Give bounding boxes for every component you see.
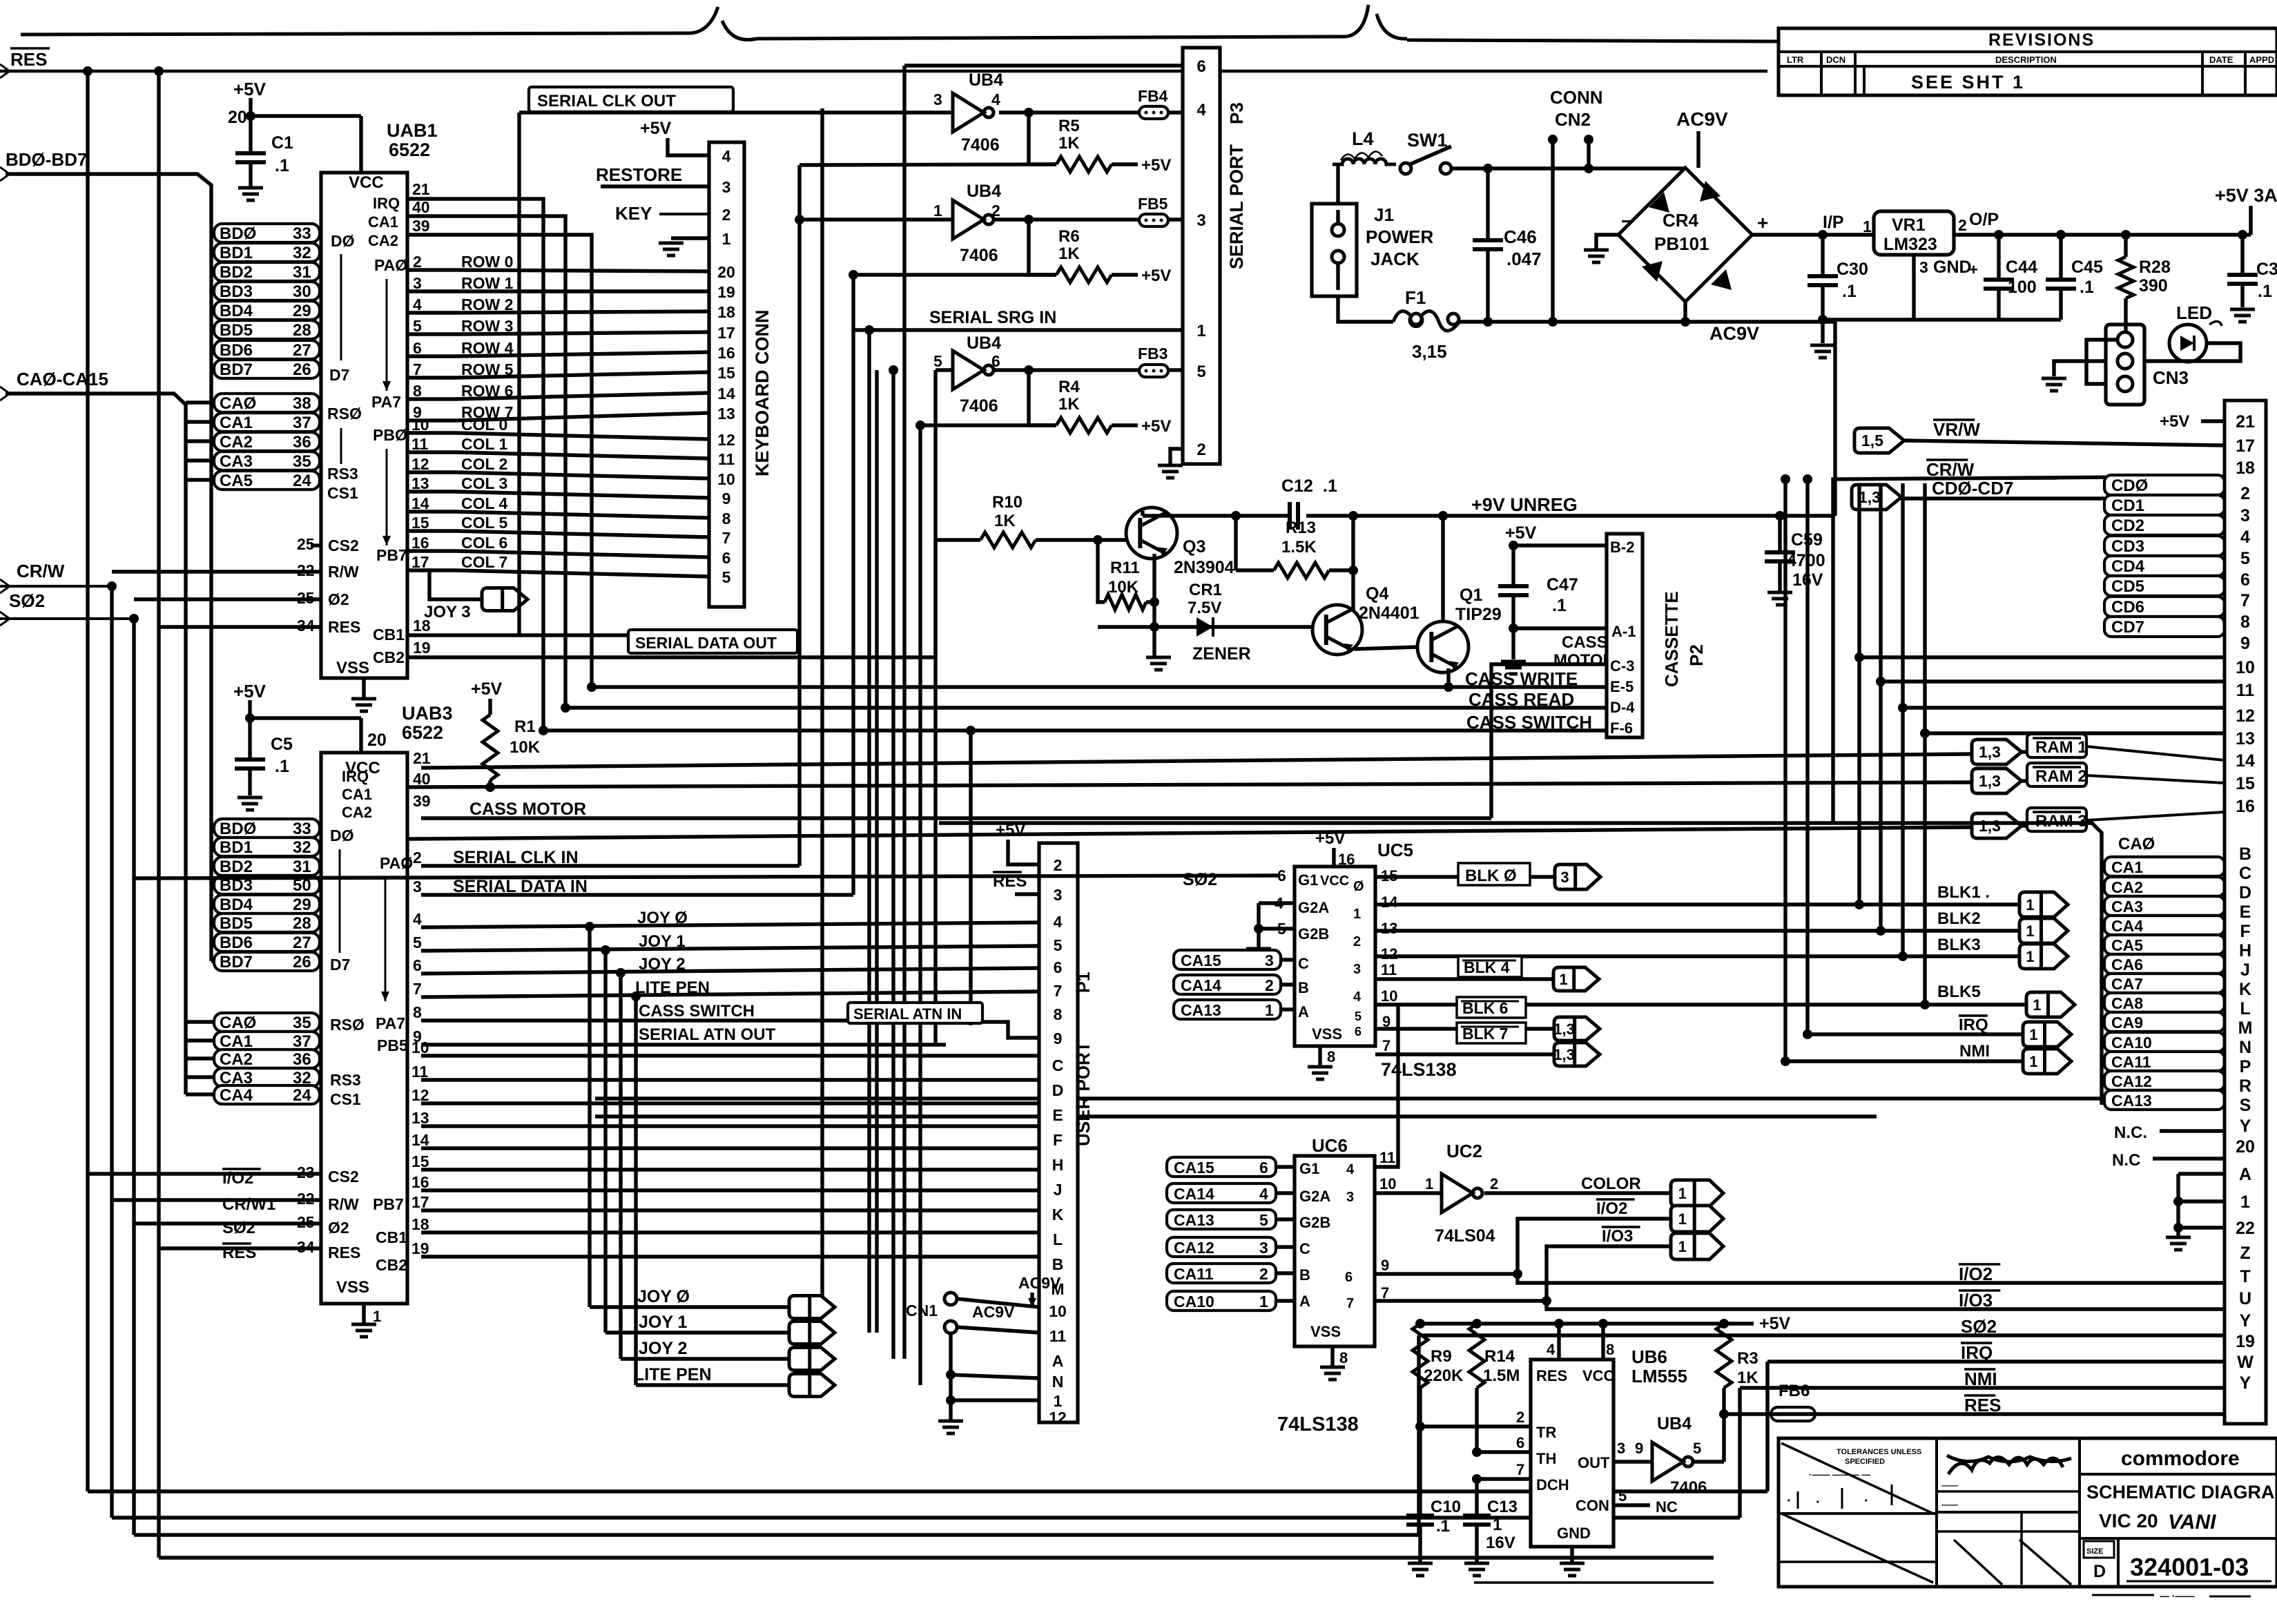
node CA11 stack (2104, 1052, 2225, 1071)
table REVISIONS verticals (1820, 52, 1823, 95)
wire UAB1 CA0 stub (186, 400, 214, 404)
wire CN1 n (951, 1375, 1039, 1378)
svg-text:AC9V: AC9V (1676, 108, 1728, 130)
svg-text:6: 6 (991, 352, 1000, 370)
svg-text:19: 19 (411, 1239, 429, 1257)
svg-text:ROW 6: ROW 6 (461, 382, 513, 400)
svg-text:CASSETTE: CASSETTE (1661, 591, 1682, 687)
svg-text:BDØ-BD7: BDØ-BD7 (6, 149, 87, 170)
svg-text:BD5: BD5 (220, 321, 253, 340)
svg-text:12: 12 (411, 1086, 429, 1104)
wire joy1 vert (603, 950, 607, 1333)
svg-text:+5V: +5V (1141, 267, 1171, 285)
chip UAB1 box (321, 173, 407, 678)
wire R5 branch (1029, 113, 1056, 164)
connector keyboard box (709, 142, 744, 607)
svg-text:15: 15 (411, 514, 429, 532)
wire UC6 out10 (1375, 1191, 1442, 1195)
svg-text:22: 22 (297, 1190, 315, 1208)
node BD3 row (214, 282, 320, 300)
wire mid vert 1270 (875, 370, 878, 1333)
ground C10 (1408, 1562, 1433, 1565)
svg-text:3: 3 (1617, 1440, 1625, 1457)
svg-text:PB7: PB7 (373, 1195, 404, 1213)
svg-text:CASS MOTOR: CASS MOTOR (469, 800, 586, 819)
svg-text:VANI: VANI (2168, 1511, 2216, 1534)
svg-text:14: 14 (1381, 893, 1398, 911)
wire COL 6 (407, 551, 709, 557)
connector COLOR tag (1671, 1180, 1723, 1206)
svg-text:18: 18 (2236, 458, 2255, 478)
svg-text:22: 22 (2236, 1219, 2255, 1238)
chip UC5 box (1295, 867, 1375, 1046)
svg-text:I/O3: I/O3 (1602, 1227, 1633, 1246)
wire UAB1 02 (134, 597, 321, 601)
svg-text:C: C (1052, 1056, 1064, 1074)
svg-text:2: 2 (1353, 934, 1361, 949)
wire UAB3 CA1 stub (186, 1038, 214, 1042)
svg-text:3: 3 (2240, 506, 2250, 525)
svg-text:G1: G1 (1298, 871, 1318, 889)
svg-text:F: F (2240, 922, 2250, 941)
svg-text:ROW 4: ROW 4 (461, 339, 514, 357)
wire IO2 tag row (1518, 1219, 1671, 1274)
wire UAB3 BD0 stub (211, 826, 214, 829)
ground Q3 (1146, 656, 1171, 659)
svg-text:21: 21 (412, 180, 430, 198)
svg-text:TR: TR (1536, 1424, 1556, 1441)
node SERIAL ATN IN (848, 1003, 982, 1023)
svg-text:2: 2 (2240, 484, 2250, 503)
svg-text:JOY 3: JOY 3 (424, 603, 471, 621)
svg-text:CA12: CA12 (1174, 1239, 1214, 1257)
svg-text:D: D (2093, 1562, 2106, 1581)
svg-text:74LS138: 74LS138 (1277, 1413, 1359, 1435)
wire CN3 low (2086, 340, 2118, 384)
svg-text:NC: NC (1656, 1498, 1678, 1516)
wire COL 2 (407, 472, 709, 478)
node UAB3 BD0 row (214, 819, 320, 838)
svg-text:·: · (1787, 1493, 1792, 1509)
node UAB3 CA4 row (214, 1085, 320, 1104)
node CA3 stack (2104, 896, 2225, 916)
wire UAB1 pin 21 (407, 199, 543, 731)
wire S02 vertical (132, 619, 135, 1535)
wire BLK2 (1375, 929, 2019, 932)
svg-text:F-6: F-6 (1610, 719, 1633, 737)
wire UAB1 PB arrow (386, 449, 388, 545)
svg-text:RS3: RS3 (327, 465, 358, 483)
wire TH (1477, 1450, 1531, 1453)
wire top border right (1407, 40, 1779, 41)
wire R6 branch (1029, 220, 1056, 275)
svg-text:L: L (1053, 1230, 1063, 1248)
svg-text:3: 3 (1265, 951, 1274, 969)
svg-text:1: 1 (2240, 1192, 2250, 1212)
node UAB1 CA0 row (214, 394, 320, 412)
svg-text:C30: C30 (1837, 260, 1868, 279)
svg-text:PAØ: PAØ (380, 854, 413, 872)
svg-text:BD3: BD3 (220, 282, 253, 301)
wire sdo vert (933, 370, 937, 1045)
svg-text:BD2: BD2 (220, 263, 253, 282)
svg-text:FB5: FB5 (1138, 195, 1168, 213)
capacitor C13 (1475, 1479, 1478, 1516)
table title left diag (1781, 1443, 1933, 1514)
wire UAB1 RW (112, 570, 321, 573)
svg-text:4: 4 (2240, 528, 2250, 547)
svg-text:16: 16 (2236, 797, 2255, 816)
svg-text:2: 2 (413, 253, 422, 271)
svg-text:VSS: VSS (336, 659, 369, 677)
svg-text:C44: C44 (2006, 258, 2037, 277)
svg-text:8: 8 (2240, 612, 2250, 632)
ground keyboard (659, 242, 684, 245)
svg-text:R6: R6 (1058, 227, 1080, 246)
svg-text:SPECIFIED: SPECIFIED (1845, 1458, 1885, 1466)
wire Q1 emitter (1446, 668, 1450, 687)
wire UAB3 row10 (421, 1054, 1039, 1057)
svg-text:AC9V: AC9V (1018, 1274, 1061, 1292)
svg-text:10: 10 (717, 470, 735, 488)
svg-text:COL 4: COL 4 (461, 494, 508, 512)
wire litepen (421, 992, 1039, 997)
wire ROW 1 (407, 289, 709, 293)
wire long 1591 (595, 1096, 2102, 1100)
svg-text:CA1: CA1 (220, 414, 253, 432)
svg-text:16: 16 (411, 1173, 429, 1191)
wire UB4 out (1692, 1460, 1724, 1463)
wire BLK1 (1375, 902, 2019, 906)
svg-text:34: 34 (297, 1238, 315, 1256)
wire BD7 stub (211, 367, 214, 370)
node CD3 box (2104, 536, 2225, 556)
svg-text:LTR: LTR (1787, 55, 1804, 65)
svg-text:CB1: CB1 (373, 626, 405, 644)
svg-text:2: 2 (1490, 1175, 1498, 1192)
wire led loop (2144, 343, 2240, 361)
svg-text:JOY 1: JOY 1 (639, 1313, 688, 1332)
svg-text:5: 5 (1054, 936, 1063, 954)
svg-text:CASS: CASS (1562, 633, 1608, 652)
svg-text:8: 8 (722, 510, 731, 528)
svg-text:CA10: CA10 (2111, 1034, 2152, 1052)
wire top border curl2 (1346, 5, 1407, 39)
svg-text:B: B (1298, 979, 1309, 996)
svg-text:1: 1 (2029, 1053, 2037, 1070)
wire BLK5 (1375, 1003, 2026, 1006)
svg-text:Z: Z (2240, 1244, 2250, 1263)
svg-text:Ø2: Ø2 (328, 590, 349, 608)
svg-text:26: 26 (293, 953, 311, 971)
svg-text:BD4: BD4 (220, 896, 253, 914)
wire BLK4 (1375, 977, 1553, 980)
svg-text:7: 7 (1054, 982, 1063, 1000)
svg-text:DØ: DØ (331, 232, 355, 250)
svg-text:+: + (1757, 212, 1768, 233)
svg-text:GND: GND (1933, 258, 1972, 277)
resistor R6 (853, 273, 1056, 276)
svg-text:100: 100 (2008, 278, 2037, 297)
node UC6 CA10 (1167, 1299, 1295, 1302)
wire conn gnd bracket (2178, 1172, 2225, 1175)
svg-text:C: C (2239, 864, 2251, 883)
svg-text:VIC 20: VIC 20 (2099, 1510, 2158, 1531)
svg-text:1: 1 (1054, 1392, 1063, 1410)
svg-text:PB7: PB7 (376, 546, 407, 564)
svg-text:CA2: CA2 (220, 433, 253, 452)
node CD1 box (2104, 495, 2225, 515)
connector BLK0 tag (1555, 864, 1600, 889)
svg-text:5: 5 (933, 352, 942, 370)
node UAB3 BD7 row (214, 952, 320, 971)
node CA6 stack (2104, 954, 2225, 974)
svg-text:1: 1 (1196, 322, 1205, 340)
svg-text:P: P (2240, 1057, 2251, 1076)
svg-text:Q4: Q4 (1366, 584, 1388, 603)
wire joy0 (421, 922, 1039, 927)
wire 5V P1 (1008, 840, 1039, 864)
svg-text:CA5: CA5 (2111, 936, 2143, 954)
svg-text:CA9: CA9 (2111, 1014, 2143, 1032)
ground C5 (238, 796, 262, 800)
wire COL 7 (407, 570, 709, 577)
svg-text:CB2: CB2 (376, 1256, 407, 1274)
capacitor C1 (249, 116, 252, 153)
wire 555 pin8 (1601, 1324, 1605, 1360)
svg-text:22: 22 (297, 561, 315, 579)
svg-text:16: 16 (717, 344, 735, 362)
ground C13 (1464, 1562, 1489, 1565)
wire R4 branch (1029, 370, 1056, 425)
node UC6 CA13 (1167, 1217, 1295, 1221)
wire Q1 collector (1441, 516, 1444, 621)
svg-text:1: 1 (1265, 1001, 1274, 1019)
svg-text:19: 19 (717, 283, 735, 301)
wire serial clk out (519, 110, 953, 114)
svg-text:UB4: UB4 (1657, 1414, 1692, 1433)
wire CN1 b (957, 1327, 1039, 1333)
svg-text:.1: .1 (275, 156, 289, 175)
svg-text:CA6: CA6 (2111, 956, 2143, 974)
svg-text:1: 1 (1678, 1185, 1687, 1202)
wire 555 rail (1420, 1322, 1724, 1325)
svg-text:SØ2: SØ2 (9, 590, 45, 611)
svg-text:31: 31 (293, 263, 311, 282)
node RAM3 (2027, 808, 2086, 831)
svg-text:C47: C47 (1547, 575, 1578, 594)
connector P1 box (1039, 843, 1078, 1422)
svg-text:+5V: +5V (2160, 412, 2189, 431)
wire UAB3 row16 (421, 1188, 1039, 1192)
wire pin6 vert (902, 66, 906, 1359)
svg-text:GND: GND (1557, 1525, 1591, 1542)
svg-text:C10: C10 (1431, 1498, 1461, 1516)
svg-text:Ø: Ø (1353, 879, 1364, 894)
svg-text:E-5: E-5 (1610, 678, 1634, 695)
wire UAB3 CRW1 (112, 1198, 321, 1201)
wire UAB1 CA3 stub (186, 458, 214, 462)
ground C59 (1767, 591, 1792, 594)
svg-text:G2A: G2A (1298, 899, 1329, 916)
ground UAB1 (362, 678, 365, 699)
wire UAB1 RES (159, 625, 321, 628)
wire BD5 stub (211, 327, 214, 331)
svg-text:4: 4 (1054, 913, 1063, 931)
node UC5 CA15 (1174, 958, 1295, 961)
wire COL 5 (407, 531, 709, 537)
svg-text:4: 4 (413, 910, 422, 928)
svg-text:15: 15 (411, 1152, 429, 1170)
svg-text:2: 2 (1259, 1265, 1268, 1283)
svg-text:.1: .1 (1436, 1517, 1450, 1536)
svg-text:IRQ: IRQ (373, 195, 400, 212)
capacitor C5 (248, 718, 251, 760)
wire ROW 3 (407, 332, 709, 334)
svg-text:CA4: CA4 (220, 1086, 253, 1105)
wire bottom stray (1474, 1581, 1714, 1584)
svg-text:BD1: BD1 (220, 244, 253, 262)
wire bottom NMI run (112, 1516, 1740, 1519)
svg-text:— ·——: — ·—— (2160, 1590, 2195, 1601)
svg-text:BD7: BD7 (220, 360, 253, 379)
wire conn pin11 h (1881, 679, 2225, 683)
svg-text:SIZE: SIZE (2086, 1547, 2103, 1556)
svg-text:IRQ: IRQ (342, 768, 369, 785)
svg-text:CR1: CR1 (1189, 581, 1222, 599)
svg-text:1,3: 1,3 (1979, 743, 2001, 761)
svg-text:SØ2: SØ2 (1183, 870, 1217, 889)
wire litepen b (636, 1383, 789, 1386)
svg-text:PBØ: PBØ (373, 426, 407, 444)
svg-text:19: 19 (413, 639, 431, 657)
svg-text:37: 37 (293, 414, 311, 432)
wire serial atn in (982, 1022, 1039, 1038)
svg-text:2N3904: 2N3904 (1174, 558, 1234, 577)
wire R4 to 5V (1112, 423, 1138, 427)
svg-text:CA10: CA10 (1174, 1293, 1214, 1311)
svg-text:SERIAL ATN OUT: SERIAL ATN OUT (639, 1025, 776, 1044)
svg-text:CS1: CS1 (327, 484, 358, 502)
svg-text:CA11: CA11 (1174, 1265, 1214, 1283)
svg-text:25: 25 (297, 535, 315, 553)
node BD7 row (214, 360, 320, 378)
svg-text:11: 11 (2236, 681, 2255, 700)
node junction CRW (107, 581, 117, 591)
wire ROW 6 (407, 393, 709, 399)
wire UAB1 CA1 stub (186, 420, 214, 423)
svg-text:OUT: OUT (1578, 1454, 1610, 1471)
wire RAM2 net (407, 782, 1972, 787)
wire ROW 4 (407, 352, 709, 356)
svg-text:UB6: UB6 (1631, 1346, 1667, 1367)
svg-text:17: 17 (717, 324, 735, 342)
wire inv1 out (999, 110, 1183, 114)
table bottom dashes (2092, 1594, 2154, 1596)
connector BLK3 tag (2019, 944, 2068, 969)
svg-text:U: U (2239, 1289, 2251, 1308)
svg-text:LITE PEN: LITE PEN (635, 978, 710, 997)
svg-text:RS3: RS3 (330, 1071, 361, 1089)
svg-text:7: 7 (413, 980, 422, 998)
svg-text:FB4: FB4 (1138, 87, 1168, 105)
svg-text:CR/W: CR/W (17, 561, 65, 581)
node BLK6 label (1457, 997, 1526, 1018)
svg-text:D: D (2239, 883, 2251, 902)
svg-text:1: 1 (2029, 1026, 2037, 1043)
wire UAB1 pin 40 (407, 216, 565, 708)
svg-text:21: 21 (413, 749, 431, 767)
svg-text:DESCRIPTION: DESCRIPTION (1995, 55, 2057, 65)
wire RES bus (0, 70, 1767, 73)
wire mid vert 1259 (867, 330, 871, 1333)
wire inv2 in (800, 217, 953, 221)
wire UAB3 CA4 stub (186, 1092, 214, 1096)
wire serial clk out drop (517, 113, 521, 635)
ground C31 (2230, 308, 2255, 311)
wire conn pin10 feed (1857, 483, 1861, 905)
wire BD bus entry (6, 174, 211, 961)
connector CN3 (2106, 325, 2144, 405)
wire UAB1 RS arrow (340, 428, 342, 464)
svg-text:UC5: UC5 (1377, 840, 1413, 860)
wire top border curl (690, 7, 757, 40)
wire AC9V to unreg (1833, 322, 1837, 516)
connector joy0 bullet (789, 1296, 835, 1319)
svg-text:VCC: VCC (349, 173, 384, 192)
svg-text:2: 2 (413, 849, 422, 867)
wire UAB3 row14 (421, 1146, 1039, 1150)
node RAM1 (2027, 734, 2086, 757)
svg-text:S: S (2240, 1096, 2251, 1115)
table REVISIONS lines (1779, 50, 2277, 53)
svg-text:BD1: BD1 (220, 838, 253, 857)
svg-text:1K: 1K (1737, 1369, 1758, 1387)
wire cass switch (543, 728, 1607, 732)
wire UAB3 row13 (421, 1124, 1039, 1128)
wire UAB3 D arrow (339, 849, 341, 953)
wire UAB1 CA4 stub (186, 478, 214, 481)
svg-text:7: 7 (1381, 1284, 1389, 1302)
svg-text:8: 8 (413, 382, 422, 400)
connector BLK4 tag (1553, 967, 1599, 991)
svg-text:R14: R14 (1484, 1347, 1515, 1366)
wire unreg rail (1143, 514, 1291, 517)
svg-text:COL 5: COL 5 (461, 514, 508, 532)
svg-text:1,3: 1,3 (1859, 488, 1881, 506)
node junction RES (83, 66, 93, 76)
svg-text:.1: .1 (1842, 282, 1857, 301)
svg-text:A-1: A-1 (1611, 623, 1636, 640)
wire inv2 out (992, 217, 1183, 221)
node CA10 stack (2104, 1032, 2225, 1052)
svg-text:R: R (2239, 1076, 2251, 1096)
svg-text:2: 2 (1054, 856, 1063, 874)
svg-text:CA2: CA2 (368, 232, 398, 249)
wire joy2 (421, 968, 1039, 974)
table partno (2117, 1538, 2120, 1587)
svg-text:10: 10 (411, 1038, 429, 1056)
svg-text:LITE PEN: LITE PEN (634, 1365, 712, 1384)
svg-text:17: 17 (2236, 436, 2255, 456)
svg-text:11: 11 (1049, 1327, 1067, 1345)
svg-text:SERIAL PORT: SERIAL PORT (1226, 144, 1247, 269)
node UC6 CA12 (1167, 1245, 1295, 1248)
svg-text:RES: RES (1536, 1367, 1567, 1384)
svg-text:8: 8 (1606, 1341, 1614, 1358)
wire UAB1 PA arrow (386, 279, 388, 391)
svg-text:1: 1 (2026, 896, 2034, 913)
